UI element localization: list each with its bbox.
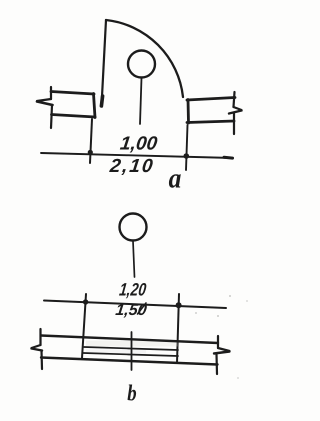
- left wall jamb: [94, 94, 96, 118]
- right wall top face line: [187, 98, 235, 101]
- svg-text:1,50: 1,50: [114, 301, 147, 319]
- door leaf: [102, 20, 107, 106]
- window frame line 1: [84, 347, 178, 350]
- right extension line (fig a): [186, 125, 188, 170]
- svg-text:а: а: [169, 162, 182, 194]
- svg-text:1,00: 1,00: [119, 134, 159, 155]
- junction dot left (fig a): [88, 150, 93, 155]
- door swing arc: [106, 20, 183, 97]
- right extension line / jamb (fig b): [177, 294, 179, 363]
- marker circle (fig b): [120, 214, 147, 241]
- dimension line (fig b): [44, 301, 226, 309]
- left wall top face line: [51, 92, 94, 95]
- wall bottom face line (fig b): [41, 358, 218, 365]
- marker leader stem (fig b): [133, 241, 135, 277]
- left extension line / jamb (fig b): [82, 294, 86, 358]
- svg-text:b: b: [127, 380, 136, 407]
- junction dot left (fig b): [83, 299, 88, 304]
- marker leader stem (fig a): [140, 78, 142, 124]
- left extension line (fig a): [90, 119, 92, 163]
- marker circle (fig a): [128, 51, 155, 78]
- faint scan specks: [229, 295, 231, 297]
- junction dot right (fig a): [184, 153, 190, 159]
- right wall break symbol (fig b): [217, 336, 219, 348]
- right wall bottom face line: [187, 121, 234, 123]
- window frame line 2: [84, 353, 179, 356]
- left wall bottom face line: [52, 115, 96, 118]
- scan smudge band in opening (fig b): [86, 341, 178, 347]
- left wall break symbol: [50, 87, 52, 99]
- wall top face line (fig b): [41, 336, 218, 344]
- right wall break symbol: [234, 92, 235, 107]
- dimension line (fig a): [41, 153, 233, 158]
- stroke across final zero of 1,50: [138, 303, 147, 314]
- svg-text:2,10: 2,10: [108, 156, 156, 177]
- svg-text:1,20: 1,20: [118, 280, 147, 300]
- opening centre line (fig b): [131, 332, 133, 370]
- junction dot right (fig b): [176, 302, 182, 308]
- left wall break symbol (fig b): [39, 329, 41, 345]
- right wall jamb: [187, 100, 190, 124]
